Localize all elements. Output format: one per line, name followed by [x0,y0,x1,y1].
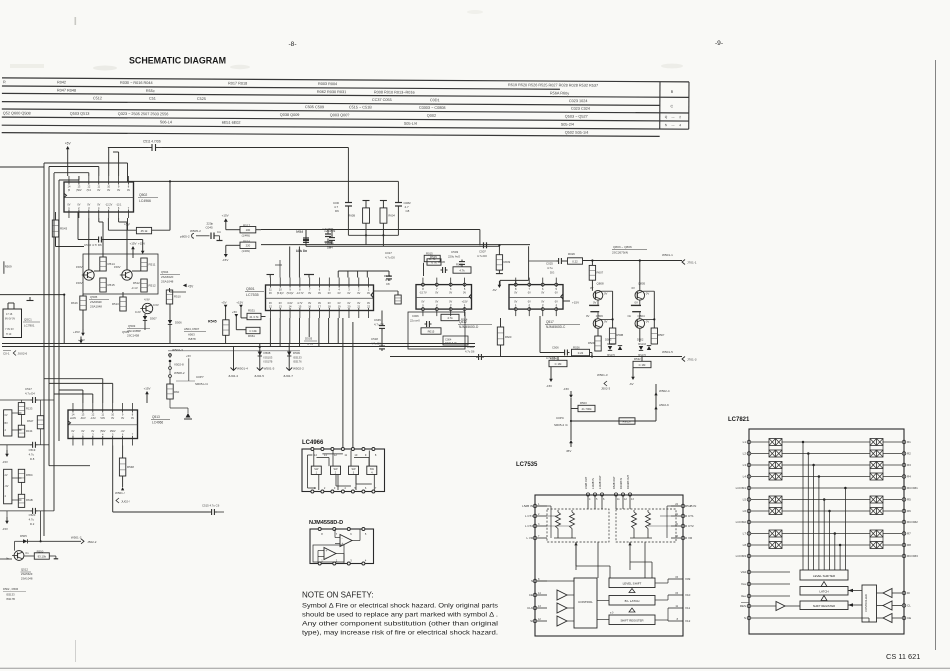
svg-text:R5dB OUT: R5dB OUT [612,476,616,489]
resistor R50B [609,328,615,344]
svg-text:(1/4W): (1/4W) [242,234,250,238]
svg-text:R4: R4 [907,475,911,479]
svg-text:R6: R6 [907,509,911,513]
right page edge line [935,60,937,650]
connector W501-4 JU02-4 [233,347,235,371]
svg-text:C 10k: C 10k [249,329,257,333]
svg-text:Vee: Vee [741,594,747,598]
svg-text:ISS17B: ISS17B [264,360,273,364]
svg-text:C 1M: C 1M [555,362,562,366]
svg-text:R50B: R50B [617,333,624,337]
svg-text:CONTROL: CONTROL [578,600,593,604]
resistor R609 right of IC [395,295,401,304]
svg-text:2: 2 [679,115,681,119]
svg-text:+15V: +15V [572,301,579,305]
svg-text:220: 220 [246,244,251,248]
LC7535 left attenuator dashed box [547,509,609,542]
svg-text:L8: L8 [743,543,747,547]
svg-text:R017 R018: R017 R018 [228,82,247,86]
wire bus to W501-1 [583,260,683,262]
svg-text:-15V: -15V [546,384,552,388]
resistor R647 [37,416,43,429]
svg-text:2SA1048: 2SA1048 [90,305,102,309]
svg-text:R1: R1 [907,440,911,444]
svg-text:R55c: R55c [146,89,155,93]
svg-text:S05-L/4: S05-L/4 [404,122,417,126]
svg-text:C045: C045 [206,226,214,230]
svg-text:D509: D509 [293,351,300,355]
parts table [2,78,689,137]
wire y280 feed to Q517 [528,246,530,280]
svg-text:CC37 C055: CC37 C055 [372,98,392,102]
svg-text:4.7u D6: 4.7u D6 [465,350,475,354]
capacitor C511 [151,144,153,151]
svg-text:+15V: +15V [144,387,151,391]
wire Q805 right lead to R507 [643,290,654,292]
resistor R543 [52,220,58,237]
svg-text:+15V: +15V [138,242,145,246]
svg-text:0V: 0V [604,292,608,296]
svg-text:R512: R512 [149,284,157,288]
svg-text:RCOM1: RCOM1 [907,486,918,490]
resistor R509 [3,261,5,274]
svg-text:C515 ~ C51B: C515 ~ C51B [349,105,372,109]
svg-text:C023 C024: C023 C024 [571,107,590,111]
wire top bus [108,147,148,149]
box B L LATCH [609,596,655,606]
IC Q5C1 LC7801 [3,309,22,338]
resistor R531 box [247,313,261,319]
svg-text:SW: SW [351,468,356,471]
power -15V [569,395,573,398]
svg-text:8V 0V 0V: 8V 0V 0V [5,318,16,321]
svg-text:4.7u: 4.7u [547,266,553,270]
svg-text:J502-2: J502-2 [87,540,97,544]
svg-text:4.7u: 4.7u [29,518,35,522]
svg-text:2SA1048: 2SA1048 [21,576,33,580]
svg-text:W501-5: W501-5 [662,350,673,354]
svg-text:C00B: C00B [438,260,445,264]
resistor R528 box [568,258,583,264]
svg-text:0V: 0V [528,291,531,294]
svg-text:V0V: V0V [100,417,105,420]
svg-text:SHIFT REGISTER: SHIFT REGISTER [813,604,835,608]
svg-text:W501-!: W501-! [115,491,125,495]
LC7821 horizontal feeds from switches [782,441,870,443]
svg-text:(5.0: (5.0 [87,189,92,192]
power +5V [183,284,187,288]
svg-text:45 1k: 45 1k [141,229,148,233]
svg-text:-13U: -13U [90,417,96,420]
svg-text:100: 100 [246,228,251,232]
svg-text:C506: C506 [552,346,559,350]
svg-text:W502-2: W502-2 [293,367,304,371]
diode D509 column [288,344,290,371]
svg-text:C0D1: C0D1 [430,98,440,102]
wires IC top pins up [289,247,291,278]
svg-text:0V: 0V [367,292,370,295]
diode D508 column [259,344,261,371]
box CONTROLLER [862,585,877,622]
svg-text:R008 R010 R013~R016: R008 R010 R013~R016 [374,90,415,94]
svg-text:C4: C4 [217,230,221,234]
svg-text:0V: 0V [87,204,90,207]
svg-text:CS 11 621: CS 11 621 [886,652,920,661]
svg-text:W501-5: W501-5 [264,367,275,371]
svg-text:C503: C503 [451,250,459,254]
svg-text:C0-1: C0-1 [3,352,10,356]
wire stubs Q5C1 [7,303,9,309]
svg-text:0V: 0V [463,291,466,294]
svg-text:+5V: +5V [188,284,195,288]
attenuator ladder right [632,512,637,529]
svg-text:Q517: Q517 [546,320,554,324]
wire long bus pair [2,343,475,345]
svg-text:R VR: R VR [685,536,693,540]
LC7821 right row wires [883,441,902,443]
svg-text:R616: R616 [71,301,78,305]
wires left box A [21,415,23,426]
svg-text:+: + [342,542,344,546]
svg-text:Q503 Q513: Q503 Q513 [70,112,90,116]
svg-text:C645: C645 [374,318,381,322]
svg-text:R509: R509 [5,265,12,269]
wire Q502 pins up to top bus [108,148,110,177]
capacitor R645 [388,271,390,274]
svg-text:ISS1S3: ISS1S3 [264,356,273,360]
svg-text:4.9V: 4.9V [144,298,150,302]
svg-text:R548: R548 [127,465,134,469]
svg-text:R5: R5 [907,498,911,502]
svg-text:Q323 ~ 2505 2507 2503 2556: Q323 ~ 2505 2507 2503 2556 [118,112,169,116]
svg-text:R026: R026 [573,346,580,350]
resistor R013 box [453,267,471,273]
svg-text:0.6V: 0.6V [153,303,159,307]
resistor R512 [141,279,147,292]
svg-text:-3.1V: -3.1V [131,286,138,290]
LC7821 right pin circles [902,440,906,444]
svg-text:R10dB OUT: R10dB OUT [626,474,630,489]
svg-text:R10dB IN: R10dB IN [619,478,623,489]
svg-text:150V: 150V [114,265,121,269]
svg-text:0V: 0V [586,314,590,318]
svg-text:C512: C512 [296,230,304,234]
svg-text:R030 ~ R016 R044: R030 ~ R016 R044 [120,81,153,85]
arrowheads into attenuators [574,542,577,545]
resistor R515 box [427,259,441,265]
wire bundle to Q513 jogs [44,378,103,380]
svg-text:LC4966: LC4966 [139,199,151,203]
LC7535 inner wires left [547,515,558,517]
LC7535 left pins [533,504,537,508]
LC7821 left pin circles [747,440,751,444]
svg-text:R015: R015 [428,329,435,333]
svg-text:C017: C017 [385,251,392,255]
svg-text:0V: 0V [308,302,311,305]
svg-text:IS878: IS878 [188,337,196,341]
svg-text:R517: R517 [243,224,251,228]
bottom page edge line [0,667,950,669]
svg-text:S05-2/4: S05-2/4 [561,123,574,127]
svg-text:0V: 0V [81,430,84,433]
wires left box B [21,482,23,494]
IC block LC7535 outline [535,495,683,636]
svg-text:Q512: Q512 [21,568,28,572]
svg-text:0V: 0V [541,301,544,304]
svg-text:Q513: Q513 [152,415,160,419]
svg-text:C512: C512 [93,96,102,100]
svg-text:D503: D503 [305,337,313,341]
cell outline box [83,254,158,294]
svg-text:-15V: -15V [2,460,8,464]
resistor R660 [167,384,173,399]
LC7821 left row wires [751,441,769,443]
resistor R604 [380,200,387,202]
svg-text:0V: 0V [131,417,134,420]
svg-text:JU02-5: JU02-5 [254,374,264,378]
svg-text:R042: R042 [57,81,66,85]
svg-text:4.7u D0: 4.7u D0 [477,254,487,258]
svg-text:R014: R014 [461,318,468,322]
svg-text:C507: C507 [479,250,486,254]
resistor R507b [651,328,657,344]
svg-text:p805-2: p805-2 [180,235,190,239]
svg-text:2SC2675(4): 2SC2675(4) [612,251,628,255]
svg-text:+15V: +15V [222,214,229,218]
box SHIFT REGISTER LC7821 [800,601,848,610]
power +15V right of Q517 [563,300,570,302]
wire bus y246 [55,237,57,247]
svg-text:0V: 0V [357,292,360,295]
input buffers LC7535 [557,590,567,600]
power +5V arrow top left [66,146,70,149]
svg-text:On: On [628,314,632,318]
svg-text:C8: C8 [386,282,390,286]
svg-text:L5: L5 [743,498,747,502]
svg-text:2SC1458: 2SC1458 [127,334,139,338]
svg-text:R: R [3,80,6,84]
svg-text:0V: 0V [97,189,100,192]
svg-text:2V: 2V [5,474,8,477]
svg-text:D6: D6 [335,209,339,213]
svg-text:R60B: R60B [348,214,355,218]
power -15V under R554 [549,379,553,382]
svg-text:L3: L3 [743,463,747,467]
svg-text:(5.6)V: (5.6)V [277,292,284,295]
wire bundle verticals left [43,163,45,536]
svg-text:LC7535: LC7535 [246,293,259,297]
svg-text:Vss: Vss [741,582,747,586]
svg-text:4.7k: 4.7k [459,268,465,272]
svg-text:0V: 0V [111,417,114,420]
wires IC top right pins [337,271,339,278]
op-amp A in NJM4558D [340,535,352,547]
wires controller to latch [848,590,862,592]
svg-text:W501-2: W501-2 [71,536,82,540]
svg-text:A502-9: A502-9 [659,403,669,407]
svg-text:D502: D502 [637,338,644,342]
svg-text:NJM4560D-C: NJM4560D-C [546,325,566,329]
svg-text:0V: 0V [279,302,282,305]
resistor R513 [120,297,126,311]
svg-text:(50V: (50V [76,189,82,192]
svg-text:R661: R661 [248,334,255,338]
svg-text:LC4966: LC4966 [302,440,324,446]
svg-text:+15V: +15V [129,242,136,246]
svg-text:150V: 150V [110,430,116,433]
svg-text:R545: R545 [208,320,217,324]
svg-text:6E51 6E02: 6E51 6E02 [222,121,241,125]
svg-text:0V: 0V [107,189,110,192]
svg-text:0V: 0V [269,302,272,305]
svg-text:0V: 0V [328,302,331,305]
svg-text:Q806: Q806 [596,314,603,318]
svg-text:Q038 Q009: Q038 Q009 [280,113,300,117]
svg-text:R513: R513 [112,302,119,306]
svg-text:-15V: -15V [2,527,8,531]
svg-text:C8: C8 [406,209,410,213]
svg-text:ISS17B: ISS17B [6,597,15,601]
wire line A y229.5 [261,229,480,231]
svg-text:0V: 0V [91,430,94,433]
left connector box B [4,469,12,504]
svg-text:LEVEL SHIFTER: LEVEL SHIFTER [813,574,835,578]
IC Q517 NJM4560D-C [509,285,563,310]
svg-text:-9-: -9- [715,40,723,47]
svg-text:0V: 0V [604,320,608,324]
IC Q502 LC4966 [64,182,134,212]
svg-text:C50B: C50B [467,345,474,349]
svg-text:C511 4.7/D6: C511 4.7/D6 [143,140,161,144]
resistor R510 [166,290,172,304]
svg-text:0V: 0V [121,417,124,420]
svg-text:LC4966: LC4966 [152,421,163,425]
svg-text:R015: R015 [426,252,433,256]
ground under R660 [186,413,191,418]
scan smudge marks [75,17,77,25]
svg-text:LC7535: LC7535 [516,462,538,468]
svg-text:R047 R048: R047 R048 [57,89,76,93]
svg-text:0.22: 0.22 [578,351,584,355]
svg-text:Vdd: Vdd [741,570,747,574]
arrows between LC7535 boxes [629,589,635,593]
resistor R620 [497,327,503,345]
svg-text:2SA562F: 2SA562F [90,300,102,304]
resistor R015 box [421,328,441,334]
wire cluster left vertical [347,181,349,200]
wire C520 row down to D505 line [40,511,42,541]
svg-text:+15V: +15V [236,301,243,305]
resistor R516b [80,296,86,310]
IC block LC7821 outline [749,429,904,634]
svg-text:0V: 0V [117,189,120,192]
svg-text:R61B: R61B [26,498,33,502]
svg-text:0V: 0V [338,302,341,305]
svg-text:R620: R620 [505,335,512,339]
wire bus y181 [128,180,399,182]
svg-text:0V: 0V [435,301,438,304]
power +15V top cell [131,246,135,249]
svg-text:Q808: Q808 [597,282,604,286]
svg-text:L4: L4 [743,475,747,479]
wire junction x170 down to R544 line [169,181,171,230]
resistor R015 above Q512 [424,255,440,261]
resistor R532 box [633,361,651,367]
power -15V arrow left A [5,454,9,457]
wire R660 to ground [169,399,171,408]
svg-text:0V: 0V [514,301,517,304]
svg-text:R65C: R65C [26,473,33,477]
svg-text:-6V: -6V [5,485,9,488]
svg-text:R CT2: R CT2 [685,524,694,528]
svg-text:5.7V: 5.7V [307,342,313,346]
svg-text:2SA562F: 2SA562F [161,275,174,279]
svg-text:Q5C1: Q5C1 [24,318,32,322]
antenna bar pin11 [267,274,275,276]
svg-text:D503: D503 [605,338,612,342]
svg-text:SW: SW [314,468,319,471]
resistor R609 under line B [498,244,500,246]
svg-text:0V: 0V [367,302,370,305]
svg-text:W501-4: W501-4 [237,367,248,371]
svg-text:-6V: -6V [629,382,634,386]
svg-text:0V: 0V [635,301,639,305]
svg-text:J701-1: J701-1 [687,261,697,265]
svg-text:SR05-L/4: SR05-L/4 [195,382,208,386]
svg-text:W502-3: W502-3 [172,348,183,352]
svg-text:V12: V12 [685,619,691,623]
svg-text:D508: D508 [264,351,271,355]
svg-text:R026: R026 [568,252,575,256]
svg-text:(5.6)V: (5.6)V [287,292,294,295]
svg-text:6 7k: 6 7k [431,260,437,264]
svg-text:C. 7k: C. 7k [429,257,436,261]
wire cluster right vertical [397,181,399,202]
svg-text:R519 R520 R526 R525 R027 R028: R519 R520 R526 R525 R027 R028 R028 R532 … [508,83,598,88]
svg-text:L7: L7 [743,532,747,536]
svg-text:0V: 0V [357,302,360,305]
svg-text:0V: 0V [555,301,558,304]
svg-text:Symbol Δ Fire or electrical sh: Symbol Δ Fire or electrical shock hazard… [302,603,499,610]
switch cells inside LC4966 [311,466,321,474]
svg-text:0V: 0V [421,301,424,304]
svg-text:R532: R532 [634,357,641,361]
svg-text:C 1M: C 1M [639,363,646,367]
svg-text:D700-6-k5: D700-6-k5 [445,342,457,345]
svg-text:R609: R609 [504,260,511,264]
resistor R529 below Q806 [595,336,601,351]
svg-text:RCOM3: RCOM3 [907,554,918,558]
resistor R516 [240,242,256,248]
resistor R515b [100,278,106,292]
svg-text:RCOM2: RCOM2 [907,520,918,524]
svg-text:R543: R543 [60,227,68,231]
svg-text:4: 4 [679,123,681,127]
svg-text:R5dB IN: R5dB IN [685,504,696,508]
svg-text:0n: 0n [25,551,29,555]
svg-text:-15.7V: -15.7V [419,291,427,294]
svg-text:R531: R531 [248,309,255,313]
resistor R544 [108,229,136,231]
svg-text:R2: R2 [907,452,911,456]
LC7821 bottom-left pins [747,570,751,574]
LC7535 top pins [586,493,589,496]
svg-text:0V: 0V [555,291,558,294]
resistor R503 box [570,398,572,421]
svg-text:45V: 45V [566,449,571,453]
svg-text:NJM4560D-D: NJM4560D-D [459,325,479,329]
svg-text:LCOM1: LCOM1 [736,486,747,490]
